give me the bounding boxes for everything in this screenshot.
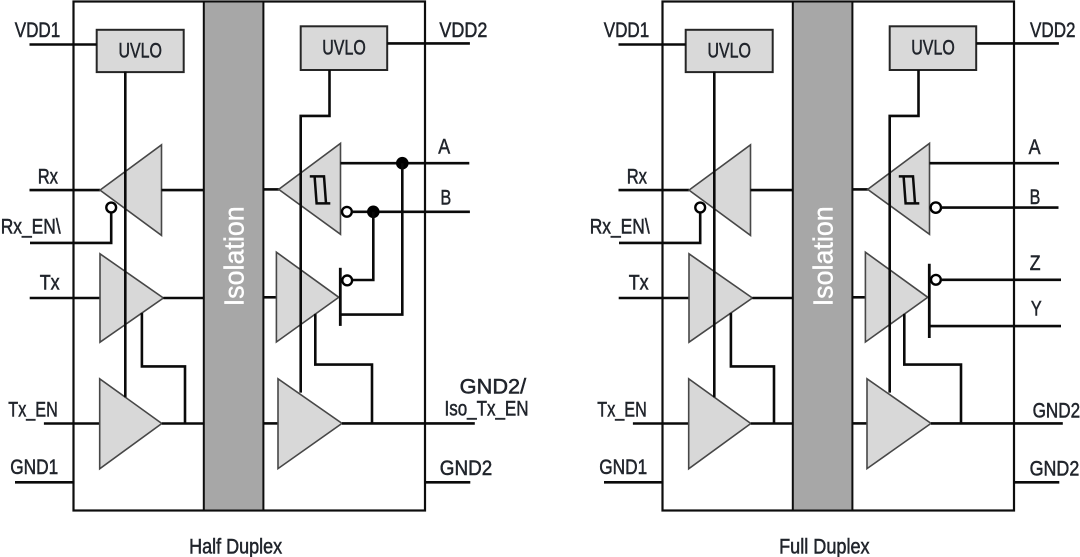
svg-text:UVLO: UVLO bbox=[322, 37, 366, 60]
svg-text:GND1: GND1 bbox=[599, 456, 647, 479]
outer box full-duplex transceiver bbox=[663, 2, 1015, 511]
isolation barrier bbox=[793, 2, 853, 511]
svg-text:GND2: GND2 bbox=[1030, 457, 1080, 480]
bubble Rx_EN active-low bbox=[106, 203, 116, 213]
wire Tx stub bbox=[30, 297, 100, 300]
bubble receiver inverting B bbox=[342, 207, 352, 217]
wire isolation to bus receiver bbox=[853, 188, 869, 191]
buffer enable side2 bbox=[278, 379, 342, 469]
wire net B bbox=[352, 211, 470, 214]
wire VDD2 stub bbox=[976, 42, 1059, 45]
wire VDD2 stub bbox=[387, 42, 470, 45]
svg-text:Rx_EN\: Rx_EN\ bbox=[1, 216, 61, 239]
wire UVLO2 down rail with jog bbox=[301, 70, 330, 393]
svg-text:A: A bbox=[1029, 136, 1041, 159]
buffer Tx driver side1 bbox=[689, 254, 752, 342]
node A junction bbox=[396, 157, 409, 170]
isolation barrier bbox=[204, 2, 264, 511]
buffer bus receiver hysteresis side2 bbox=[868, 143, 930, 234]
wire net GND2 upper bbox=[931, 422, 1063, 425]
wire Rx buffer to isolation bbox=[162, 189, 205, 192]
wire Tx enable tap bbox=[731, 313, 774, 424]
svg-text:GND2: GND2 bbox=[440, 457, 493, 480]
svg-text:Full Duplex: Full Duplex bbox=[779, 536, 870, 557]
wire isolation to bus driver bbox=[853, 296, 866, 299]
wire net Y bbox=[929, 325, 1061, 328]
wire Tx stub bbox=[619, 297, 689, 300]
wire Rx_EN stub bbox=[30, 213, 111, 243]
wire isolation to bus receiver bbox=[264, 188, 280, 191]
svg-text:UVLO: UVLO bbox=[707, 40, 751, 63]
wire UVLO2 down rail with jog bbox=[890, 70, 919, 393]
buffer Tx_EN side1 bbox=[100, 379, 162, 469]
svg-text:Y: Y bbox=[1031, 297, 1042, 320]
node B junction bbox=[367, 206, 380, 219]
svg-text:Tx: Tx bbox=[40, 272, 60, 295]
wire Tx_EN buffer to isolation bbox=[751, 422, 794, 425]
wire isolation to enable buffer side2 bbox=[264, 422, 279, 425]
svg-text:VDD2: VDD2 bbox=[1030, 19, 1076, 42]
UVLO block side2 bbox=[301, 26, 388, 70]
bubble driver inverting output Z bbox=[931, 275, 941, 285]
wire Rx_EN stub bbox=[619, 213, 700, 243]
wire Rx stub bbox=[619, 189, 690, 192]
wire Tx enable tap bbox=[142, 313, 185, 424]
svg-text:Tx_EN: Tx_EN bbox=[8, 399, 58, 422]
svg-text:A: A bbox=[438, 136, 450, 159]
hysteresis symbol lower bbox=[315, 176, 331, 203]
wire Tx_EN buffer to isolation bbox=[162, 422, 205, 425]
svg-text:Iso_Tx_EN: Iso_Tx_EN bbox=[445, 398, 529, 421]
driver output bar bbox=[928, 264, 931, 338]
bubble driver inverting output bbox=[342, 276, 352, 286]
wire Rx stub bbox=[30, 189, 101, 192]
svg-text:Tx: Tx bbox=[629, 272, 649, 295]
wire UVLO1 down rail bbox=[124, 72, 127, 398]
wire Tx buffer to isolation bbox=[752, 297, 793, 300]
UVLO block side1 bbox=[97, 30, 184, 72]
hysteresis symbol lower bbox=[904, 176, 920, 203]
buffer bus driver side2 bbox=[276, 252, 338, 342]
svg-text:Rx: Rx bbox=[627, 166, 648, 189]
svg-text:GND2: GND2 bbox=[1033, 400, 1080, 423]
UVLO block side1 bbox=[686, 30, 773, 72]
svg-text:Rx: Rx bbox=[38, 166, 59, 189]
svg-text:UVLO: UVLO bbox=[118, 40, 162, 63]
buffer enable side2 bbox=[867, 379, 931, 469]
wire Tx_EN stub bbox=[44, 422, 100, 425]
wire B to driver bubble bbox=[352, 212, 373, 280]
svg-text:GND2/: GND2/ bbox=[460, 375, 527, 398]
UVLO block side2 bbox=[890, 26, 977, 70]
wire VDD1 stub bbox=[30, 43, 97, 46]
wire driver enable tap side2 bbox=[315, 314, 372, 424]
hysteresis symbol upper bbox=[899, 176, 915, 203]
driver output bar bbox=[339, 268, 342, 326]
buffer bus receiver hysteresis side2 bbox=[279, 143, 341, 234]
wire Tx_EN stub bbox=[633, 422, 689, 425]
wire GND2 stub bbox=[1014, 481, 1059, 484]
svg-text:Tx_EN: Tx_EN bbox=[597, 399, 647, 422]
svg-text:B: B bbox=[1030, 186, 1041, 209]
wire UVLO1 down rail bbox=[713, 72, 716, 398]
svg-text:Z: Z bbox=[1030, 252, 1041, 275]
wire Rx buffer to isolation bbox=[751, 189, 794, 192]
wire GND1 stub bbox=[15, 481, 75, 484]
bubble Rx_EN active-low bbox=[695, 203, 705, 213]
buffer Rx receiver side1 bbox=[689, 145, 751, 236]
wire isolation to bus driver bbox=[264, 296, 277, 299]
svg-text:UVLO: UVLO bbox=[911, 37, 955, 60]
wire VDD1 stub bbox=[619, 43, 686, 46]
wire net B bbox=[941, 206, 1059, 209]
wire GND1 stub bbox=[604, 481, 664, 484]
wire GND2 stub bbox=[425, 481, 470, 484]
bubble receiver inverting B bbox=[931, 202, 941, 212]
buffer Rx receiver side1 bbox=[100, 145, 162, 236]
wire net A bbox=[341, 162, 470, 165]
svg-text:Isolation: Isolation bbox=[218, 206, 249, 306]
buffer Tx_EN side1 bbox=[689, 379, 751, 469]
svg-text:Half Duplex: Half Duplex bbox=[189, 536, 282, 557]
hysteresis symbol upper bbox=[310, 176, 326, 203]
svg-text:VDD1: VDD1 bbox=[15, 19, 61, 42]
wire net Z bbox=[941, 278, 1061, 281]
wire Tx buffer to isolation bbox=[163, 297, 204, 300]
svg-text:Isolation: Isolation bbox=[807, 206, 838, 306]
wire driver enable tap side2 bbox=[904, 314, 961, 424]
svg-text:GND1: GND1 bbox=[10, 456, 58, 479]
outer box half-duplex transceiver bbox=[74, 2, 426, 511]
svg-text:Rx_EN\: Rx_EN\ bbox=[590, 216, 650, 239]
wire A to driver bar bbox=[341, 163, 402, 314]
wire net GND2/Iso_Tx_EN bbox=[342, 422, 475, 425]
wire net A bbox=[930, 162, 1060, 165]
wire isolation to enable buffer side2 bbox=[853, 422, 868, 425]
buffer bus driver side2 bbox=[865, 252, 927, 342]
svg-text:VDD1: VDD1 bbox=[604, 19, 650, 42]
buffer Tx driver side1 bbox=[100, 254, 163, 342]
svg-text:VDD2: VDD2 bbox=[439, 19, 487, 42]
svg-text:B: B bbox=[441, 186, 452, 209]
